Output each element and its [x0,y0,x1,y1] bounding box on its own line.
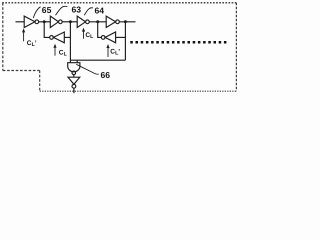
wire output stub through boundary [73,88,75,93]
svg-text:64: 64 [95,5,105,15]
leader line for label 65 [33,7,40,18]
leader line for label 63 [56,6,68,15]
leader line for label 66 [76,64,99,74]
capacitance arrow CL' at feedback inverter B [106,44,109,57]
dashed block boundary bottom [40,90,237,92]
dashed block boundary left [2,3,4,71]
svg-text:66: 66 [101,70,111,80]
inverter 65 [24,16,38,27]
svg-text:65: 65 [42,5,52,15]
wire top chain node 63-64 [62,21,77,23]
inverter 63 [50,16,62,27]
capacitance arrow CL' at input node [22,28,25,41]
dashed block boundary top [2,2,237,4]
wire gate output to inverter 66 [73,75,75,78]
dotted continuation line (chain continues) [130,41,227,44]
inverter 4th of chain [106,16,119,27]
wire gate input bus horizontal [70,59,125,61]
capacitance arrow CL at feedback inverter A [53,44,56,56]
node J2 junction dot [69,20,72,23]
wire gate input stub right [76,60,78,63]
wire top chain node after 64 [89,21,106,23]
capacitance arrow CL at inverter 64 input [82,28,85,39]
wire input to inverter 65 [16,21,25,23]
dashed block boundary notch vertical [39,71,41,92]
node J4 junction dot [124,20,127,23]
leader line for label 64 [84,8,93,16]
feedback inverter A (faces left) [50,32,65,43]
wire top chain output segment [119,21,135,23]
svg-text:CL: CL [85,32,94,40]
wire J2 vertical down to gate input [69,22,71,60]
svg-text:CL: CL [59,49,68,57]
wire J1 vertical and feedback output [44,22,49,38]
svg-text:CL’: CL’ [110,49,120,57]
svg-text:CL’: CL’ [27,40,37,48]
wire feedback B input [116,36,126,38]
wire gate input stub left [69,60,71,63]
inverter 64 [77,16,89,27]
svg-text:63: 63 [72,4,82,14]
inverter 66 (points down) [68,77,80,88]
feedback inverter B (faces left) [101,32,115,43]
wire top chain node 65-63 [39,21,51,23]
wire feedback A input [64,36,70,38]
wire J4 vertical down [124,22,126,60]
wire J3 vertical and feedback B output [98,22,102,38]
dashed block boundary right [235,3,237,91]
node J3 junction dot [96,20,99,23]
nand gate (points down) [68,63,80,75]
dashed block boundary notch horizontal [3,70,40,72]
node J1 junction dot [43,20,46,23]
